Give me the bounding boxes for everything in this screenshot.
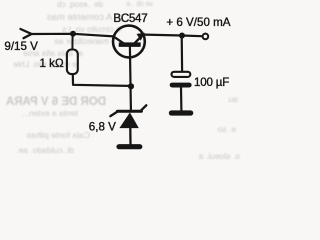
zener diode D1 cathode left bend — [110, 112, 117, 117]
transistor Q1 emitter arrowhead — [137, 33, 145, 41]
transistor Q1 BC547 body — [113, 26, 145, 58]
svg-text:9/15 V: 9/15 V — [4, 40, 38, 53]
bleed-through ghost text (mirrored page show-through) — [6, 0, 240, 161]
svg-text:DOR DE 6 V PARA: DOR DE 6 V PARA — [6, 96, 106, 108]
svg-text:di..culdado. ae.: di..culdado. ae. — [16, 145, 74, 155]
svg-text:+ 6 V/50 mA: + 6 V/50 mA — [166, 16, 230, 29]
svg-text:100 µF: 100 µF — [194, 76, 229, 89]
svg-text:de ..esoq. cb: de ..esoq. cb — [57, 0, 103, 9]
svg-text:1 kΩ: 1 kΩ — [40, 57, 64, 70]
ground symbol (capacitor branch) — [169, 110, 194, 115]
node C: junction output/capacitor — [179, 33, 185, 39]
svg-text:6,8 V: 6,8 V — [89, 121, 116, 134]
zener diode D1 cathode right bend — [141, 105, 146, 110]
svg-text:.ve sb ..a: .ve sb ..a — [126, 1, 155, 8]
wire: capacitor C1 to ground — [180, 88, 183, 111]
node A: junction input/resistor — [70, 31, 76, 37]
transistor Q1 base bar — [119, 42, 141, 47]
wire: transistor emitter to output terminal — [145, 35, 202, 37]
svg-text:Cala fonte pilhas: Cala fonte pilhas — [27, 130, 90, 140]
input terminal arrow (9/15 V source) — [21, 29, 32, 38]
svg-text:BC547: BC547 — [113, 12, 147, 25]
wire: node A down to resistor R1 — [71, 34, 73, 50]
zener diode D1 anode triangle — [119, 112, 138, 128]
capacitor C1 negative plate (filled) — [170, 83, 192, 88]
wire: transistor Q1 base down to node B and zener — [130, 47, 131, 110]
transistor Q1 collector stroke — [114, 37, 124, 44]
transistor Q1 emitter stroke with arrow — [135, 36, 141, 42]
svg-text:e. so: e. so — [217, 124, 236, 134]
svg-text:manecilizer ae: manecilizer ae — [54, 36, 109, 46]
svg-text:o. sloeui. a: o. sloeui. a — [199, 151, 240, 161]
wire: input to transistor collector — [32, 34, 114, 37]
wire: node C down to capacitor C1 — [181, 36, 184, 71]
node B: junction resistor/zener/base — [128, 83, 134, 89]
capacitor C1 positive plate (hollow) — [172, 72, 191, 77]
output terminal circle — [203, 34, 209, 40]
svg-text:au: au — [228, 94, 238, 104]
wire: resistor R1 to node B — [73, 74, 131, 86]
resistor R1 1 kΩ — [67, 50, 78, 75]
wire: zener D1 anode to ground — [129, 128, 131, 145]
zener diode D1 cathode bar — [117, 110, 141, 113]
svg-text:ϱ. A comente mas: ϱ. A comente mas — [47, 12, 123, 23]
svg-text:tenta a exten...: tenta a exten... — [22, 108, 78, 118]
ground symbol (zener branch) — [116, 144, 142, 149]
